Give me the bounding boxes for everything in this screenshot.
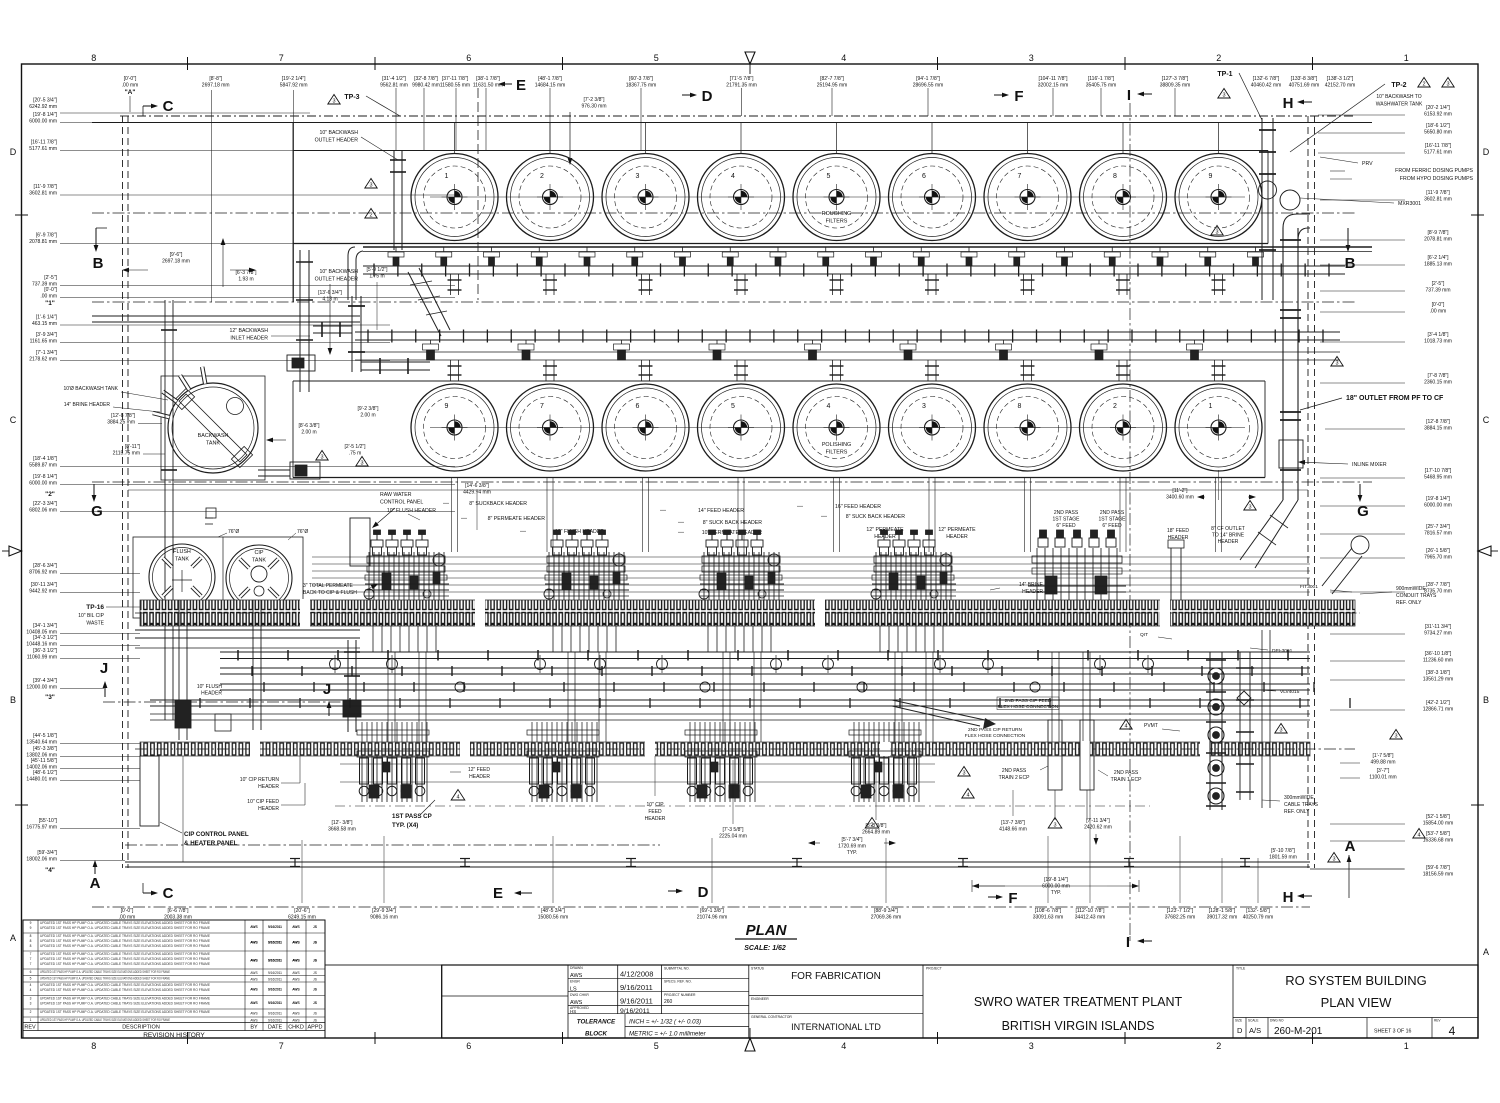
svg-text:A: A [10,933,16,943]
svg-text:AWS: AWS [292,1018,299,1022]
svg-text:3400.60 mm: 3400.60 mm [1166,494,1194,500]
building north wall [92,122,1372,124]
svg-text:AWS: AWS [292,977,299,981]
svg-text:A: A [90,875,101,892]
roughing filter 9 [1175,123,1262,241]
svg-text:[13'-6 3/4"]: [13'-6 3/4"] [318,290,342,296]
chain line J section partial [103,701,360,703]
svg-text:1ST STAGE: 1ST STAGE [1098,517,1126,523]
svg-text:4: 4 [841,53,846,63]
svg-text:3: 3 [1215,230,1218,236]
18 inch outlet riser pipe [1280,228,1301,500]
svg-text:[39'-4 3/4"]: [39'-4 3/4"] [33,678,57,684]
svg-text:FILTERS: FILTERS [826,450,848,456]
svg-text:WASTE: WASTE [86,621,104,627]
svg-text:6153.92 mm: 6153.92 mm [1424,111,1452,117]
svg-text:[38'-1 7/8"]: [38'-1 7/8"] [476,76,500,82]
svg-text:[26'-1 5/8"]: [26'-1 5/8"] [1426,548,1450,554]
svg-text:14480.01 mm: 14480.01 mm [26,776,57,782]
polishing filter platform [293,380,1265,382]
svg-text:[94'-1 7/8"]: [94'-1 7/8"] [916,76,940,82]
svg-text:2: 2 [369,213,372,219]
RO train lower cluster 2 [527,722,599,802]
svg-text:AWS: AWS [250,959,257,963]
RO train upper cluster 3 [699,530,784,652]
svg-text:JS: JS [313,1012,317,1016]
svg-text:HEADER: HEADER [258,784,279,790]
svg-text:4: 4 [456,795,459,801]
svg-text:CHKD: CHKD [288,1025,304,1031]
svg-text:AWS: AWS [250,1001,257,1005]
svg-text:28696.55 mm: 28696.55 mm [913,82,944,88]
svg-text:DWG NO: DWG NO [1270,1019,1284,1023]
centerline marker triangle top [745,52,755,64]
svg-text:SUBMITTAL NO.: SUBMITTAL NO. [664,967,690,971]
svg-text:[6'-6 7/8"]: [6'-6 7/8"] [167,908,189,914]
svg-text:2697.18 mm: 2697.18 mm [202,82,230,88]
svg-text:12" FEED: 12" FEED [468,767,490,773]
svg-text:737.39 mm: 737.39 mm [1425,287,1450,293]
svg-text:463.15 mm: 463.15 mm [32,321,57,327]
svg-text:76"Ø: 76"Ø [228,529,239,535]
svg-text:4148.66 mm: 4148.66 mm [999,826,1027,832]
svg-text:[138'-3 1/2"]: [138'-3 1/2"] [1327,76,1354,82]
svg-text:F: F [1008,890,1017,907]
svg-text:FLEX HOSE CONNECTION: FLEX HOSE CONNECTION [998,704,1059,710]
svg-text:4: 4 [966,793,969,799]
cf outlet elbow diagonal [1322,548,1362,594]
svg-text:[19'-8 1/4"]: [19'-8 1/4"] [1044,877,1068,883]
svg-text:BACKWASH: BACKWASH [198,433,229,439]
right area vertical pipes to wall [1261,630,1263,808]
svg-text:27069.36 mm: 27069.36 mm [871,914,902,920]
svg-text:1018.73 mm: 1018.73 mm [1424,338,1452,344]
svg-text:2078.81 mm: 2078.81 mm [1424,236,1452,242]
svg-text:A: A [1483,947,1489,957]
svg-text:DPI-3001: DPI-3001 [1272,648,1293,654]
svg-text:16" FEED HEADER: 16" FEED HEADER [835,504,881,510]
svg-text:UPDATED 1ST PASS HP PUMP O.A.: UPDATED 1ST PASS HP PUMP O.A. UPDATED CA… [40,997,210,1001]
svg-text:6" FEED: 6" FEED [1102,523,1122,529]
svg-text:2225.04 mm: 2225.04 mm [719,833,747,839]
svg-text:AWS: AWS [250,941,257,945]
svg-text:6" FEED: 6" FEED [1056,523,1076,529]
svg-text:10" CIP FEED: 10" CIP FEED [247,799,279,805]
svg-text:8" CF OUTLET: 8" CF OUTLET [1211,526,1245,532]
svg-text:[12'-8 7/8"]: [12'-8 7/8"] [1426,419,1450,425]
svg-text:[48'-5 3/4"]: [48'-5 3/4"] [541,908,565,914]
train cross connector pipes [387,652,389,742]
svg-text:2ND PASS CIP FEED: 2ND PASS CIP FEED [1005,698,1052,704]
svg-text:2697.18 mm: 2697.18 mm [162,258,190,264]
svg-text:BRITISH VIRGIN ISLANDS: BRITISH VIRGIN ISLANDS [1002,1019,1155,1033]
svg-text:3: 3 [1029,53,1034,63]
roughing filter 8 [1080,123,1167,241]
svg-text:42152.70 mm: 42152.70 mm [1325,82,1356,88]
svg-text:1161.65 mm: 1161.65 mm [30,338,57,344]
svg-text:9/16/2011: 9/16/2011 [268,941,282,945]
svg-text:10" FLUSH HEADER: 10" FLUSH HEADER [555,529,604,535]
svg-text:38809.35 mm: 38809.35 mm [1160,82,1191,88]
svg-text:[59'-3/4"]: [59'-3/4"] [37,850,57,856]
svg-text:E: E [516,77,526,94]
svg-text:1.93 m: 1.93 m [238,276,253,282]
svg-text:"2": "2" [45,491,55,498]
svg-text:[19'-2 1/4"]: [19'-2 1/4"] [282,76,306,82]
triangles lower area [865,818,879,828]
polishing filter 1 [1175,384,1262,471]
svg-text:2: 2 [1113,403,1117,410]
svg-text:[7'-2 3/8"]: [7'-2 3/8"] [583,97,605,103]
svg-text:6: 6 [466,1041,471,1051]
svg-text:9980.42 mm: 9980.42 mm [412,82,440,88]
svg-text:D: D [1237,1026,1243,1035]
svg-text:2: 2 [540,173,544,180]
backwash diagonal pipe [408,268,450,336]
cip leader verticals [182,756,184,862]
svg-text:UPDATED 1ST PASS HP PUMP O.A.: UPDATED 1ST PASS HP PUMP O.A. UPDATED CA… [40,970,170,974]
svg-text:[44'-5 1/8"]: [44'-5 1/8"] [33,733,57,739]
svg-text:[7'-3 5/8"]: [7'-3 5/8"] [722,827,744,833]
svg-text:[82'-7 7/8"]: [82'-7 7/8"] [820,76,844,82]
svg-text:TRAIN 1 ECP: TRAIN 1 ECP [1111,777,1143,783]
valve clusters band A [388,247,404,266]
svg-text:4.13 m: 4.13 m [322,296,337,302]
svg-text:[19'-8 1/4"]: [19'-8 1/4"] [1426,496,1450,502]
svg-text:9/16/2011: 9/16/2011 [268,977,282,981]
svg-text:12" BACKWASH: 12" BACKWASH [229,328,268,334]
svg-text:4: 4 [30,983,32,987]
polishing filter 7 [507,384,594,471]
svg-text:JS: JS [313,987,317,991]
svg-text:AWS: AWS [250,1018,257,1022]
svg-text:3: 3 [1029,1041,1034,1051]
svg-text:3: 3 [1446,82,1449,88]
svg-text:14684.15 mm: 14684.15 mm [535,82,566,88]
svg-text:UPDATED 1ST PASS HP PUMP O.A.: UPDATED 1ST PASS HP PUMP O.A. UPDATED CA… [40,988,210,992]
polishing filter 2 [1080,384,1167,471]
RO train lower cluster 4 [849,722,921,802]
svg-text:5177.61 mm: 5177.61 mm [1424,149,1452,155]
svg-text:[0'-0"]: [0'-0"] [124,76,137,82]
svg-text:RAW WATER: RAW WATER [380,492,412,498]
svg-text:3: 3 [1222,93,1225,99]
svg-text:AWS: AWS [292,971,299,975]
svg-text:[132'- 5/8"]: [132'- 5/8"] [1246,908,1270,914]
svg-text:3884.15 mm: 3884.15 mm [1424,425,1452,431]
backwash tank [168,383,258,473]
svg-text:37682.25 mm: 37682.25 mm [1165,914,1196,920]
svg-text:5177.61 mm: 5177.61 mm [29,146,57,152]
svg-text:1: 1 [1209,403,1213,410]
2nd pass ecp panels [1048,720,1062,790]
polishing filter 6 [602,384,689,471]
svg-text:14" BRINE: 14" BRINE [1019,582,1044,588]
svg-text:ENGINEER: ENGINEER [751,997,769,1001]
svg-text:8: 8 [91,53,96,63]
svg-text:10" CIP RETURN: 10" CIP RETURN [240,777,280,783]
svg-text:2: 2 [1422,82,1425,88]
section marker E bottom [521,892,532,894]
svg-text:15080.56 mm: 15080.56 mm [538,914,569,920]
svg-text:UPDATED 1ST PASS HP PUMP O.A.: UPDATED 1ST PASS HP PUMP O.A. UPDATED CA… [40,1010,210,1014]
svg-text:18002.06 mm: 18002.06 mm [26,856,57,862]
svg-text:260-M-201: 260-M-201 [1274,1026,1323,1037]
svg-text:[132'-6 7/8"]: [132'-6 7/8"] [1253,76,1280,82]
polishing filter 3 [889,384,976,471]
svg-text:8: 8 [1018,403,1022,410]
svg-text:DWG CHKR: DWG CHKR [570,993,589,997]
svg-text:REVISION HISTORY: REVISION HISTORY [143,1032,205,1039]
svg-text:H: H [1283,889,1294,906]
svg-text:9/16/2011: 9/16/2011 [620,1008,650,1015]
svg-text:7: 7 [279,53,284,63]
svg-text:[7'-8 7/8"]: [7'-8 7/8"] [1427,373,1449,379]
svg-text:POLISHING: POLISHING [822,442,851,448]
svg-text:[30'-11 3/4"]: [30'-11 3/4"] [31,582,58,588]
section marker I top [1144,93,1152,95]
svg-text:900mmWIDE: 900mmWIDE [1396,586,1426,592]
svg-text:C: C [163,885,174,902]
svg-text:8" SUCK BACK HEADER: 8" SUCK BACK HEADER [703,520,762,526]
svg-text:.00 mm: .00 mm [40,293,57,299]
svg-text:I: I [1126,934,1130,951]
svg-text:40250.79 mm: 40250.79 mm [1243,914,1274,920]
svg-text:40460.42 mm: 40460.42 mm [1251,82,1282,88]
roughing filter 5 [793,123,880,241]
svg-text:[34'-1 3/4"]: [34'-1 3/4"] [33,623,57,629]
svg-text:11236.60 mm: 11236.60 mm [1423,657,1453,663]
svg-text:TO 14" BRINE: TO 14" BRINE [1212,533,1245,539]
svg-text:FLEX HOSE CONNECTION: FLEX HOSE CONNECTION [965,733,1026,739]
svg-text:11580.55 mm: 11580.55 mm [440,82,470,88]
svg-text:SCALE: SCALE [1248,1019,1258,1023]
svg-text:21074.96 mm: 21074.96 mm [697,914,728,920]
svg-text:[1'-6 1/4"]: [1'-6 1/4"] [36,315,58,321]
svg-text:9086.16 mm: 9086.16 mm [370,914,398,920]
cip small tank square [215,714,231,731]
svg-text:HEADER: HEADER [645,816,666,822]
svg-text:2: 2 [30,1010,32,1014]
svg-text:DRAWN: DRAWN [570,966,583,970]
backwash to washwater riser [1259,118,1277,300]
right riser secondary [1236,652,1254,800]
svg-text:[8'-11"]: [8'-11"] [125,444,141,450]
svg-text:5: 5 [654,53,659,63]
svg-text:SPECS. REF. NO.: SPECS. REF. NO. [664,980,692,984]
svg-text:JS: JS [313,941,317,945]
svg-text:"3": "3" [45,694,55,701]
roughing filter 4 [698,123,785,241]
svg-text:10" FLUSH: 10" FLUSH [197,684,223,690]
svg-text:8: 8 [30,944,32,948]
feed header pipe run 1 [220,650,1310,661]
svg-text:C: C [163,98,174,115]
RO train upper cluster 2 [544,530,629,652]
pump motor block 2 [290,462,320,479]
svg-text:SCALE: 1/62: SCALE: 1/62 [744,945,786,952]
svg-text:33091.63 mm: 33091.63 mm [1033,914,1064,920]
svg-text:UPDATED 1ST PASS HP PUMP O.A.: UPDATED 1ST PASS HP PUMP O.A. UPDATED CA… [40,962,210,966]
svg-text:HEADER: HEADER [201,691,222,697]
column line A vertical dashed [477,88,479,300]
svg-text:B: B [1345,255,1356,272]
svg-text:UPDATED 1ST PASS HP PUMP O.A.: UPDATED 1ST PASS HP PUMP O.A. UPDATED CA… [40,952,210,956]
svg-text:1: 1 [1404,53,1409,63]
svg-text:[42'-2 1/2"]: [42'-2 1/2"] [1426,700,1450,706]
section marker I bottom [1144,940,1152,942]
svg-text:[2'-5 1/2"]: [2'-5 1/2"] [344,444,366,450]
cable tray band 2 [140,742,1310,756]
svg-text:16336.68 mm: 16336.68 mm [1423,837,1454,843]
svg-text:[38'-3 1/8"]: [38'-3 1/8"] [1426,670,1450,676]
permeate pipe run 3 [220,682,1314,692]
svg-text:FROM HYPO DOSING PUMPS: FROM HYPO DOSING PUMPS [1400,176,1474,182]
svg-text:9/16/2011: 9/16/2011 [620,983,653,992]
grid ticks right border [1471,214,1484,216]
svg-text:REV: REV [24,1025,36,1031]
svg-text:499.88 mm: 499.88 mm [1370,759,1395,765]
svg-text:[32'-8 7/8"]: [32'-8 7/8"] [414,76,438,82]
feed header pipe run 2 [220,666,1310,676]
svg-text:CONTROL PANEL: CONTROL PANEL [380,500,423,506]
svg-text:4: 4 [1449,1024,1456,1038]
RO header lines full width [312,556,1310,558]
title block frame [442,965,1478,1038]
svg-text:3: 3 [636,173,640,180]
svg-text:INLET HEADER: INLET HEADER [230,336,268,342]
svg-text:TRAIN 2 ECP: TRAIN 2 ECP [999,775,1031,781]
svg-text:[6'-2 1/4"]: [6'-2 1/4"] [1427,255,1449,261]
svg-text:8: 8 [30,934,32,938]
svg-text:HEADER: HEADER [946,534,968,540]
svg-text:39017.32 mm: 39017.32 mm [1207,914,1238,920]
svg-text:[6'-3 7/8"]: [6'-3 7/8"] [235,270,257,276]
svg-text:[128'-1 5/8"]: [128'-1 5/8"] [1209,908,1236,914]
svg-text:MXR3001: MXR3001 [1398,201,1421,207]
svg-text:2ND PASS: 2ND PASS [1114,770,1139,776]
svg-text:4: 4 [30,988,32,992]
inline mixer symbol on riser [1279,440,1303,468]
svg-text:STATUS: STATUS [751,967,765,971]
svg-text:HEADER: HEADER [1218,539,1239,545]
svg-text:15854.00 mm: 15854.00 mm [1423,820,1454,826]
svg-text:9: 9 [445,403,449,410]
svg-text:OUTLET HEADER: OUTLET HEADER [315,138,359,144]
svg-text:3884.25 mm: 3884.25 mm [107,419,135,425]
svg-text:21791.35 mm: 21791.35 mm [726,82,757,88]
svg-text:8" SUCK BACK HEADER: 8" SUCK BACK HEADER [846,514,905,520]
svg-text:[1'-7 5/8"]: [1'-7 5/8"] [1372,753,1394,759]
svg-text:[45'-3 3/8"]: [45'-3 3/8"] [33,746,57,752]
svg-text:TYP.: TYP. [1051,890,1061,896]
svg-text:5650.80 mm: 5650.80 mm [1424,129,1452,135]
svg-text:3: 3 [962,771,965,777]
svg-text:ENGR: ENGR [570,980,580,984]
svg-text:4: 4 [731,173,735,180]
svg-text:CIP: CIP [255,550,264,556]
svg-text:FEED: FEED [648,809,662,815]
svg-text:1: 1 [1404,1041,1409,1051]
svg-text:JS: JS [313,971,317,975]
svg-text:[2'-5"]: [2'-5"] [44,275,57,281]
svg-text:9/16/2011: 9/16/2011 [620,997,653,1006]
svg-text:AWS: AWS [570,973,583,979]
svg-text:[20'-6"]: [20'-6"] [294,908,310,914]
svg-text:9: 9 [30,921,32,925]
svg-text:UPDATED 1ST PASS HP PUMP O.A.: UPDATED 1ST PASS HP PUMP O.A. UPDATED CA… [40,921,210,925]
flush tank [149,544,215,614]
svg-text:9/16/2011: 9/16/2011 [268,987,282,991]
flush header vertical assembly [343,640,361,732]
roughing filter platform [293,150,1268,152]
svg-text:2360.15 mm: 2360.15 mm [1424,379,1452,385]
tank inlet pipe flush [205,517,213,519]
svg-text:DESCRIPTION: DESCRIPTION [122,1025,160,1031]
svg-text:[53'-7 5/8"]: [53'-7 5/8"] [1426,831,1450,837]
svg-text:[48'-6 1/2"]: [48'-6 1/2"] [33,770,57,776]
svg-text:AWS: AWS [292,959,299,963]
svg-text:SWRO WATER TREATMENT PLANT: SWRO WATER TREATMENT PLANT [974,995,1183,1009]
svg-text:2178.62 mm: 2178.62 mm [29,356,57,362]
svg-text:1.75 m: 1.75 m [369,273,384,279]
RO train upper cluster 4 [871,530,956,652]
svg-text:2: 2 [1216,1041,1221,1051]
svg-text:1801.59 mm: 1801.59 mm [1269,854,1297,860]
svg-text:[55'-10"]: [55'-10"] [39,818,58,824]
svg-text:PROJECT NUMBER: PROJECT NUMBER [664,993,696,997]
svg-text:D: D [698,884,709,901]
svg-text:9/16/2011: 9/16/2011 [268,1012,282,1016]
svg-text:9/16/2011: 9/16/2011 [268,971,282,975]
svg-text:2ND PASS: 2ND PASS [1100,510,1125,516]
svg-text:3: 3 [1394,734,1397,740]
svg-text:[34'-3 1/2"]: [34'-3 1/2"] [33,635,57,641]
svg-text:TOLERANCE: TOLERANCE [577,1019,616,1026]
svg-text:[59'-6 7/8"]: [59'-6 7/8"] [1426,865,1450,871]
svg-text:[12'-8 7/8"]: [12'-8 7/8"] [111,413,135,419]
section marker D bottom [668,890,676,892]
svg-text:10" BACKWASH TO: 10" BACKWASH TO [1376,94,1421,100]
svg-text:8" SUCKBACK HEADER: 8" SUCKBACK HEADER [469,501,527,507]
svg-text:4: 4 [827,403,831,410]
svg-text:A/S: A/S [1249,1026,1261,1035]
backwash outlet header band [363,247,1372,277]
svg-text:10" CIP: 10" CIP [646,802,664,808]
grid ticks left border [15,214,28,216]
svg-text:UPDATED 1ST PASS HP PUMP O.A.: UPDATED 1ST PASS HP PUMP O.A. UPDATED CA… [40,957,210,961]
svg-text:5: 5 [654,1041,659,1051]
svg-text:4: 4 [1417,833,1420,839]
svg-text:GENERAL CONTRACTOR: GENERAL CONTRACTOR [751,1015,792,1019]
flush cip tank plinth [133,537,303,618]
svg-text:3: 3 [1335,361,1338,367]
svg-text:7816.57 mm: 7816.57 mm [1424,530,1452,536]
svg-text:[48'-1 7/8"]: [48'-1 7/8"] [538,76,562,82]
svg-text:[31'-4 1/2"]: [31'-4 1/2"] [382,76,406,82]
svg-text:18" FEED: 18" FEED [1167,528,1189,534]
conduit tray centerline [135,612,1360,614]
svg-text:7: 7 [30,962,32,966]
valve handles on pipe runs [330,659,341,670]
centerline through roughing filters [430,196,1245,198]
extension line col A [129,96,131,112]
tray band 2 white gaps [250,741,260,757]
svg-text:2ND PASS: 2ND PASS [1002,768,1027,774]
svg-text:[116'-1 7/8"]: [116'-1 7/8"] [1088,76,1115,82]
svg-text:[20'-5 3/4"]: [20'-5 3/4"] [33,98,57,104]
chain line bottom dimension [92,906,1310,908]
